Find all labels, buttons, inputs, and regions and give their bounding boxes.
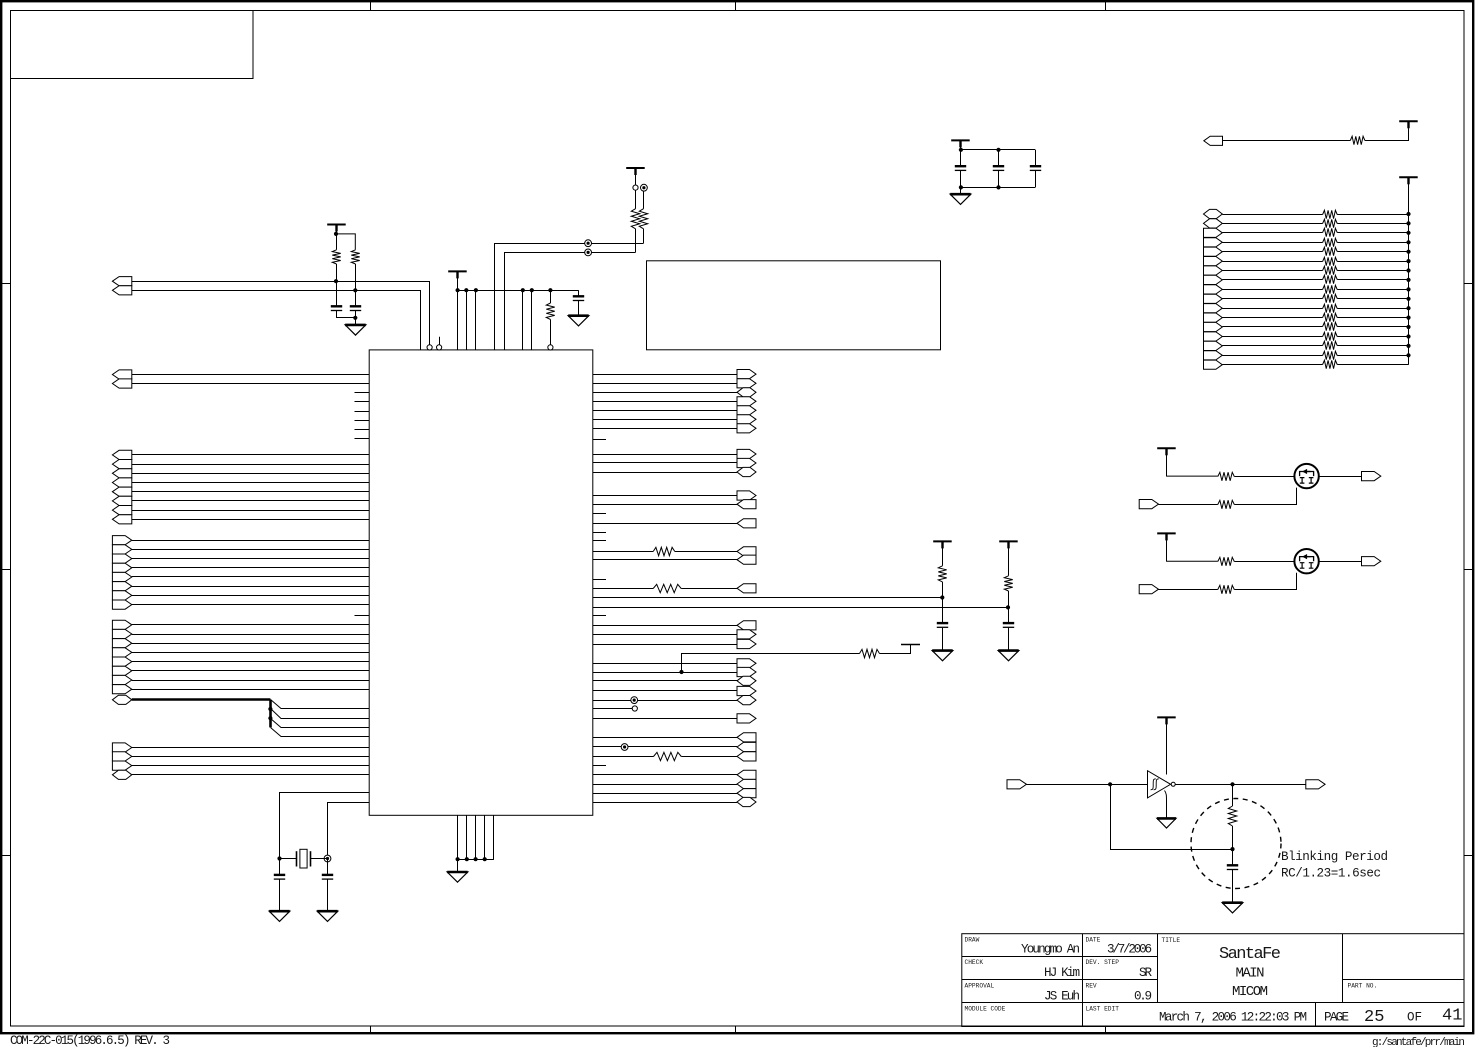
wire/arrow R8-4 [593, 770, 756, 779]
pin stub right 615 [593, 615, 606, 617]
resistor pull-up R-A [332, 234, 340, 281]
wires group D [132, 625, 369, 690]
ground decoupling [950, 187, 971, 204]
bank row 1: arrow, wire, resistor [1204, 209, 1409, 218]
bank row 12: arrow, wire, resistor [1204, 313, 1409, 322]
wire/arrow R7-3 [593, 639, 756, 648]
wires group C [132, 541, 369, 605]
wires group A [132, 375, 369, 384]
svg-text:3/7/2006: 3/7/2006 [1107, 943, 1152, 957]
title SantaFe MAIN MICOM [1219, 945, 1281, 1000]
capacitor C-A [331, 281, 342, 318]
VCC decoupling rail [951, 140, 1035, 152]
svg-text:25: 25 [1364, 1008, 1384, 1027]
resistor pull-up R-B [351, 250, 359, 290]
wire/arrow R4 [593, 519, 756, 528]
wire/arrow R5-1 with series resistor [593, 547, 756, 556]
capacitor CD2 [993, 150, 1004, 188]
connector arrow top right [1204, 136, 1223, 145]
wire/arrow R3-2 [593, 500, 756, 509]
svg-text:DATE: DATE [1086, 937, 1101, 944]
pin stub right 579 [593, 579, 606, 581]
wire drain 2 [1319, 561, 1362, 563]
wire XOUT [324, 803, 369, 862]
svg-text:PART NO.: PART NO. [1348, 983, 1378, 990]
svg-text:41: 41 [1442, 1007, 1462, 1026]
ground XG2 [317, 911, 338, 921]
connector arrow osc in [1007, 780, 1027, 789]
bank row 16: arrow, wire, resistor [1204, 351, 1409, 360]
wire/arrow R7-2 [593, 630, 756, 639]
svg-text:Blinking Period: Blinking Period [1281, 850, 1388, 864]
svg-text:CHECK: CHECK [965, 959, 984, 966]
wire/arrow R7-4 [593, 659, 756, 668]
wire/arrow R1-2 [593, 379, 756, 388]
crystal X1 [280, 849, 328, 868]
ground filter A [932, 651, 953, 661]
svg-text:JS Euh: JS Euh [1044, 990, 1080, 1004]
wire EMI net 1 [495, 240, 644, 350]
thick bus wire [132, 700, 271, 728]
bank row 6: arrow, wire, resistor [1204, 257, 1409, 266]
wire EMI net 2 [505, 249, 636, 350]
svg-text:LAST EDIT: LAST EDIT [1086, 1006, 1120, 1013]
top bus pins to IC [458, 290, 532, 350]
capacitor CD3 [1030, 150, 1041, 188]
VCC filter B [999, 541, 1018, 575]
pin stub right 765 [593, 765, 606, 767]
VCC oscillator [1157, 717, 1176, 774]
svg-text:COM-22C-015(1996.6.5) REV. 3: COM-22C-015(1996.6.5) REV. 3 [10, 1034, 170, 1047]
svg-text:RC/1.23=1.6sec: RC/1.23=1.6sec [1281, 867, 1381, 881]
bank row 17: arrow, wire, resistor [1204, 360, 1409, 369]
wires group E [132, 748, 369, 775]
connector arrows group E [112, 743, 131, 780]
bank row 9: arrow, wire, resistor [1204, 285, 1409, 294]
svg-text:MICOM: MICOM [1232, 984, 1268, 1000]
VCC driver 2 [1157, 533, 1176, 561]
bank row 8: arrow, wire, resistor [1204, 275, 1409, 284]
connector arrows group C (8 outputs) [112, 536, 131, 610]
capacitor top bus [573, 290, 584, 316]
bank row 5: arrow, wire, resistor [1204, 247, 1409, 256]
wire/arrow R7-6 [593, 676, 756, 685]
connector arrow gate in 1 [1139, 500, 1158, 509]
svg-text:PAGE: PAGE [1324, 1011, 1349, 1025]
wire net RESET1 [132, 282, 430, 346]
wire/arrow R6 with series resistor [593, 584, 756, 593]
connector arrow out 1 [1362, 472, 1381, 481]
wire/arrow R8-2 test point [593, 742, 756, 751]
wire/arrow R7-8 test point [593, 696, 756, 705]
title block labels [965, 937, 1378, 1013]
wire/arrow R8-5 [593, 779, 756, 788]
ground XG1 [269, 911, 290, 921]
wire/arrow R8-1 [593, 733, 756, 742]
ground under IC [447, 859, 468, 882]
svg-text:MAIN: MAIN [1236, 966, 1265, 982]
VCC top right [1399, 121, 1418, 128]
bank row 2: arrow, wire, resistor [1204, 219, 1409, 228]
svg-text:HJ Kim: HJ Kim [1044, 966, 1080, 980]
VCC driver 1 [1157, 448, 1176, 476]
ground filter B [998, 651, 1019, 661]
wire net RESET2 [132, 291, 421, 350]
no-connect pin 708 [593, 706, 638, 711]
wire + resistor gate 1 [1159, 488, 1297, 509]
svg-text:SR: SR [1139, 966, 1152, 980]
title block values [1021, 943, 1152, 1004]
dashed highlight circle [1191, 799, 1281, 889]
capacitor XC2 [322, 859, 333, 912]
wire osc output [1175, 782, 1306, 786]
long wire net LONG1 [593, 595, 945, 599]
pin stubs right 532,541 [593, 533, 606, 541]
wire osc input [1027, 782, 1148, 786]
long wire net LONG2 [593, 605, 1010, 609]
pin stub right 513 [593, 513, 606, 515]
VCC filter A [933, 541, 952, 565]
svg-text:Youngmo An: Youngmo An [1021, 943, 1080, 957]
wire + resistor source 1 [1166, 472, 1294, 480]
capacitor filter A [937, 598, 948, 651]
IC bottom ground pins [456, 815, 494, 861]
wire drain 1 [1319, 476, 1362, 478]
wires group B [132, 455, 369, 520]
ground top bus [568, 316, 589, 326]
wire/arrow R2-2 [593, 458, 756, 467]
svg-text:DRAW: DRAW [965, 937, 980, 944]
wire/arrow R1-4 [593, 397, 756, 406]
svg-text:0.9: 0.9 [1134, 990, 1152, 1004]
ground oscillator [1157, 791, 1176, 829]
pin stub left mid [355, 615, 370, 617]
connector arrows group A (2) [112, 370, 131, 388]
revision box top-left [11, 11, 254, 79]
VCC EMI source [626, 168, 645, 190]
bank row 14: arrow, wire, resistor [1204, 332, 1409, 341]
decoupling ground rail [959, 185, 1035, 189]
svg-text:MODULE CODE: MODULE CODE [965, 1006, 1006, 1013]
bus junction dots [268, 707, 272, 720]
transistor Q1 (P-MOSFET) [1294, 464, 1318, 488]
wire/arrow R7-7 [593, 686, 756, 695]
unconnected pin stubs left upper [355, 393, 370, 439]
wire/arrow R7-5 with branch [593, 667, 756, 676]
bank row 11: arrow, wire, resistor [1204, 304, 1409, 313]
VCC branch stub [901, 644, 920, 646]
wire/arrow R2-3 [593, 467, 756, 476]
VCC top bus [448, 271, 467, 290]
wire/arrow R8-3 with series resistor [593, 752, 756, 761]
bank row 13: arrow, wire, resistor [1204, 322, 1409, 331]
capacitor XC1 [274, 859, 285, 912]
wire/arrow R2-1 [593, 449, 756, 458]
wire/arrow R8-6 [593, 789, 756, 798]
capacitor C-B [350, 290, 361, 318]
note Blinking Period [1281, 850, 1388, 881]
connector arrow out 2 [1362, 557, 1381, 566]
bus branch wires to IC [271, 700, 370, 737]
wire/arrow R1-6 [593, 415, 756, 424]
connector arrow osc out [1306, 780, 1325, 789]
VCC resistor bank [1399, 177, 1418, 214]
wire VCC to R2 [334, 232, 355, 250]
connector arrow gate in 2 [1139, 585, 1158, 594]
wire/arrow R3-1 [593, 491, 756, 500]
resistor filter B [1004, 576, 1012, 608]
branch pull-up wire [679, 645, 910, 675]
wire + resistor source 2 [1166, 557, 1294, 565]
bank bus wire [1406, 177, 1410, 364]
ground under caps [345, 318, 366, 335]
wire/arrow R1-7 [593, 424, 756, 433]
ground feedback [1222, 903, 1243, 913]
wire/arrow R1-3 [593, 388, 756, 397]
reserved box (empty) [647, 261, 941, 350]
svg-text:DEV. STEP: DEV. STEP [1086, 959, 1120, 966]
svg-text:APPROVAL: APPROVAL [965, 983, 995, 990]
resistor on pin 11 [546, 290, 554, 350]
connector arrows group D (8 outputs) [112, 620, 131, 694]
pin stub right 439 [593, 439, 606, 441]
top bus wire [456, 288, 579, 292]
wire/arrow R1-1 [593, 370, 756, 379]
VCC supply for pull-ups [327, 225, 346, 234]
wire/arrow R7-9 [593, 714, 756, 723]
page numbers [1324, 1007, 1462, 1028]
wire + resistor gate 2 [1159, 573, 1297, 594]
wire/arrow R5-2 [593, 555, 756, 564]
svg-text:TITLE: TITLE [1162, 937, 1181, 944]
connector arrows group B (8 inputs) [112, 450, 131, 524]
bank row 15: arrow, wire, resistor [1204, 341, 1409, 350]
wire/arrow R1-5 [593, 406, 756, 415]
junction dots on reset nets [334, 279, 358, 292]
wire with pull-up [1223, 128, 1409, 144]
resistor feedback [1228, 784, 1236, 849]
capacitor filter B [1003, 607, 1014, 650]
op-amp U2 schmitt inverter [1148, 771, 1176, 798]
wire XIN [277, 793, 369, 861]
wire/arrow R7-1 [593, 621, 756, 630]
bank row 4: arrow, wire, resistor [1204, 238, 1409, 247]
connector arrows group A0 (2 inputs) [112, 277, 131, 295]
ferrite bead FB2 [631, 190, 639, 252]
svg-text:REV: REV [1086, 983, 1097, 990]
capacitor CD1 [955, 150, 966, 188]
capacitor feedback [1227, 849, 1238, 903]
wire feedback [1111, 785, 1235, 852]
wire cap commons [336, 316, 357, 320]
op IC U1 MICOM [369, 350, 593, 815]
wire/arrow R8-7 [593, 797, 756, 806]
svg-text:March 7, 2006 12:22:03 PM: March 7, 2006 12:22:03 PM [1159, 1011, 1307, 1025]
ferrite bead FB1 [639, 184, 647, 243]
svg-text:OF: OF [1407, 1011, 1422, 1025]
bank row 7: arrow, wire, resistor [1204, 266, 1409, 275]
title block [962, 934, 1464, 1027]
bank row 3: arrow, wire, resistor [1204, 228, 1409, 237]
bank row 10: arrow, wire, resistor [1204, 294, 1409, 303]
connector arrow bus (hexagon) [112, 695, 131, 704]
transistor Q2 (P-MOSFET) [1294, 549, 1318, 573]
svg-text:SantaFe: SantaFe [1219, 945, 1281, 964]
pin circle stubs top [427, 337, 442, 350]
resistor filter A [938, 566, 946, 598]
svg-text:g:/santafe/prr/main: g:/santafe/prr/main [1372, 1037, 1465, 1047]
